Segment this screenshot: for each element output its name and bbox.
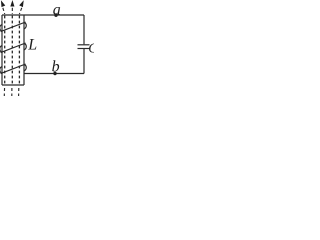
svg-text:L: L bbox=[27, 36, 37, 53]
svg-text:a: a bbox=[53, 2, 61, 19]
svg-text:b: b bbox=[52, 59, 60, 76]
svg-text:C: C bbox=[88, 41, 94, 56]
